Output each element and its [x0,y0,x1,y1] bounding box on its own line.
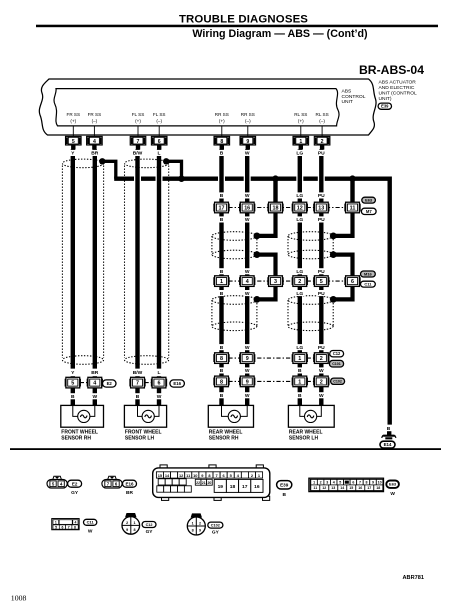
connector oval C102 (row4) [331,378,345,384]
svg-text:B: B [220,269,224,275]
connector terminal 17 [213,204,215,212]
svg-text:L: L [158,370,161,376]
drain 11 to RL shield [333,213,352,236]
pin 5 of ABS control unit [66,136,82,145]
label W below row2 [244,290,250,296]
svg-text:M16: M16 [364,271,373,276]
svg-text:1: 1 [55,521,57,525]
svg-text:19: 19 [218,484,224,490]
svg-text:5: 5 [55,525,57,529]
connector terminal 12 [292,204,294,212]
svg-text:(+): (+) [135,119,141,124]
svg-text:5: 5 [72,139,75,145]
connector row 3 dash links [228,357,293,359]
ground stub [387,431,391,435]
svg-text:9: 9 [246,379,249,385]
svg-text:8: 8 [192,529,194,533]
connector terminal 7 (front LH) [129,379,131,387]
svg-text:B: B [136,394,140,400]
svg-text:16: 16 [254,484,260,490]
junction dot RL shield bottom [330,251,337,258]
label LG below row1 [295,216,304,222]
svg-text:B: B [298,368,302,374]
wire label Y under pin [70,150,76,156]
svg-text:8: 8 [133,528,135,532]
connector terminal 2 (row2) [292,277,294,285]
label B between rows 3-4 [219,367,225,373]
shield cylinder RL pair lower [288,296,333,305]
svg-text:W: W [390,491,395,497]
front wire to sensor [157,388,161,406]
wire label B under pin [219,150,225,156]
pin 2 of ABS control unit [314,136,330,145]
svg-text:LG: LG [296,151,303,157]
ground connector oval E14 [380,441,395,448]
svg-text:18: 18 [273,206,279,212]
svg-text:FR SS: FR SS [67,112,81,117]
connector terminal 1 (row4) [292,378,294,386]
svg-text:B: B [220,151,224,157]
wire label LG under pin [295,150,304,156]
connector oval C101 (row3) [329,360,343,367]
svg-text:17: 17 [367,486,371,490]
wire PU rear LH (-) to sensor [319,386,323,406]
connector oval C12 (row3) [330,351,344,357]
pin 4 of ABS control unit [87,136,103,145]
svg-text:UNIT (CONTROL: UNIT (CONTROL [379,90,417,96]
svg-text:E63: E63 [389,482,397,487]
junction dot RR lower shield [254,296,261,303]
label W to front sensor [92,393,98,399]
svg-text:(+): (+) [298,119,304,124]
svg-text:5: 5 [339,481,341,485]
svg-text:15: 15 [349,486,353,490]
front wire to connector [135,376,139,379]
svg-text:C102: C102 [333,379,342,383]
label PU above row1 [317,192,326,198]
legend oval E63 [386,481,399,488]
svg-text:LG: LG [296,269,303,275]
svg-text:7: 7 [68,525,70,529]
svg-text:PU: PU [318,269,325,275]
pin 9 of ABS control unit [240,136,256,145]
label Y above front connector [70,369,76,375]
svg-text:M7: M7 [366,209,372,214]
svg-text:E16: E16 [125,481,134,486]
svg-text:9: 9 [246,356,249,362]
svg-text:(–): (–) [245,119,251,124]
svg-text:(+): (+) [219,119,225,124]
svg-text:SENSOR RH: SENSOR RH [61,435,91,441]
connector terminal 4 (front RH) [87,379,89,387]
svg-text:6: 6 [351,279,354,285]
svg-text:6: 6 [158,381,161,387]
svg-text:3: 3 [274,279,277,285]
wire B rear RH (+) to row4 [219,363,223,377]
svg-text:RR SS: RR SS [241,112,255,117]
connector terminal 6 (front LH) [151,379,153,387]
label B below row1 [219,216,225,222]
label LG above row2 [295,268,304,274]
shield cylinder RR pair upper [212,232,257,241]
svg-text:7: 7 [137,139,140,145]
rear wheel sensor LH [288,405,334,427]
label B/W above front connector [131,369,144,375]
wire W rear RH (-) upper [245,149,249,202]
svg-text:C101: C101 [332,362,341,366]
wire LG rear LH (+) to sensor [298,386,302,406]
svg-text:13: 13 [331,486,335,490]
svg-text:14: 14 [340,486,344,490]
svg-text:8: 8 [74,525,76,529]
pin leader wires [73,126,322,136]
label W above row1 [244,192,250,198]
wire label PU under pin [317,150,326,156]
svg-text:12: 12 [322,486,326,490]
pin 1 of ABS control unit [293,136,309,145]
legend connector face E63 [309,478,384,491]
junction dot RL shield top [330,233,337,240]
svg-text:W: W [245,269,250,275]
svg-text:B: B [220,217,224,223]
label W above row2 [244,268,250,274]
svg-text:8: 8 [220,379,223,385]
svg-text:1: 1 [313,481,315,485]
shield cylinder RL pair upper [288,232,333,241]
legend connector face C11 [52,519,79,530]
wire LG rear LH (+) lower [298,286,302,353]
junction dot RR shield bottom [254,251,261,258]
svg-text:2: 2 [298,279,301,285]
label W below row4 [244,392,250,398]
connector terminal 2 (row4) [313,378,315,386]
svg-text:GY: GY [71,490,79,496]
ground symbol [383,436,394,439]
svg-text:FR SS: FR SS [88,112,102,117]
svg-text:1: 1 [133,521,135,525]
svg-text:8: 8 [220,356,223,362]
svg-text:6: 6 [352,481,354,485]
wire label W under pin [244,150,250,156]
svg-text:LG: LG [296,291,303,297]
svg-text:E2: E2 [107,381,113,386]
svg-text:E14: E14 [384,442,392,447]
svg-text:C11: C11 [87,520,95,525]
svg-text:C12: C12 [146,523,153,527]
connector oval E16 [170,380,185,387]
svg-text:E39: E39 [381,104,389,109]
drain RR shield to connector 3 [257,255,276,277]
pin 6 of ABS control unit [151,136,167,145]
ground bus wire to E14 [114,179,390,425]
wire label B/W under pin [131,150,144,156]
svg-text:(–): (–) [92,119,98,124]
label L above front connector [156,369,162,375]
svg-text:RL SS: RL SS [316,112,329,117]
connector terminal 2 (row3) [313,354,315,362]
wire PU rear LH (-) lower [319,286,323,353]
connector terminal 18 [267,204,269,212]
label B below row4 [297,392,303,398]
wire L front LH (-) [157,149,161,368]
wire W rear RH (-) lower [245,286,249,353]
svg-text:2: 2 [199,521,201,525]
wire B rear RH (+) upper [219,149,223,202]
wire label BR under pin [90,150,99,156]
svg-text:PU: PU [318,151,325,157]
label B above row3 [219,344,225,350]
wire PU rear LH (-) middle [319,213,323,276]
label W above row3 [244,344,250,350]
svg-text:LG: LG [296,217,303,223]
wire B rear RH (+) to sensor [219,386,223,406]
wire LG rear LH (+) middle [298,213,302,276]
svg-text:B: B [220,345,224,351]
wire label L under pin [156,150,162,156]
bottom separator rule [10,448,441,450]
ABS actuator and electric unit outer box [39,79,376,135]
svg-text:TROUBLE DIAGNOSES: TROUBLE DIAGNOSES [179,13,308,25]
shield cylinder front LH pair [125,159,169,168]
wire PU rear LH (-) to row4 [319,363,323,377]
svg-text:B: B [220,393,224,399]
svg-text:W: W [245,393,250,399]
connector terminal 8 (row3) [213,354,215,362]
svg-text:PU: PU [318,291,325,297]
svg-text:GY: GY [146,529,154,535]
wire B/W front LH (+) [135,149,139,368]
svg-text:3: 3 [326,481,328,485]
label PU above row2 [317,268,326,274]
svg-text:C12: C12 [333,351,341,356]
label PU below row2 [317,290,326,296]
svg-text:B: B [387,426,391,432]
svg-text:W: W [245,151,250,157]
front wire to sensor [135,388,139,406]
svg-text:SENSOR LH: SENSOR LH [125,435,155,441]
svg-text:B: B [298,393,302,399]
svg-text:4: 4 [74,521,76,525]
label LG above row3 [295,344,304,350]
svg-text:W: W [319,368,324,374]
svg-text:B/W: B/W [133,151,143,157]
svg-text:C11: C11 [364,282,372,287]
connector terminal 6 (row2) [344,277,346,285]
svg-text:21: 21 [202,481,206,485]
svg-text:W: W [92,394,97,400]
front wire to sensor [93,388,97,406]
svg-text:W: W [245,193,250,199]
svg-text:W: W [157,394,162,400]
svg-text:ABS ACTUATOR: ABS ACTUATOR [379,80,417,86]
svg-text:2: 2 [320,481,322,485]
label PU above row3 [317,344,326,350]
svg-text:E16: E16 [173,381,181,386]
connector oval C11 (row2) [361,281,376,287]
drain from bus to connector 11 [350,179,354,203]
svg-text:8: 8 [366,481,368,485]
connector oval E63 (row1) [362,197,376,203]
connector terminal 1 (row3) [292,354,294,362]
label LG below row2 [295,290,304,296]
svg-text:17: 17 [242,484,248,490]
svg-text:1: 1 [299,139,302,145]
connector terminal 5 (row2) [313,277,315,285]
header rule [36,25,438,28]
label B below row4 [219,392,225,398]
svg-text:PU: PU [318,345,325,351]
svg-text:16: 16 [244,206,250,212]
label W below row4 [319,392,325,398]
rear wheel sensor RH [208,405,253,427]
svg-text:9: 9 [199,529,201,533]
wire Y front RH (+) [71,149,75,368]
pin 7 of ABS control unit [130,136,146,145]
connector oval E2 [103,380,117,387]
wire W rear RH (-) to row4 [245,363,249,377]
label B to front sensor [135,393,141,399]
svg-text:UNIT): UNIT) [379,96,392,102]
label B to front sensor [70,393,76,399]
connector oval E39 (top) [378,103,391,109]
svg-text:GY: GY [212,530,220,536]
junction dot FR shield drain [99,158,105,164]
svg-text:6: 6 [158,139,161,145]
junction dot bus/conn18 [272,175,279,182]
connector terminal 8 (row4) [213,378,215,386]
junction dot RR shield top [254,233,261,240]
svg-text:E39: E39 [280,482,289,487]
connector terminal 4 (row2) [239,277,241,285]
svg-text:SENSOR LH: SENSOR LH [289,435,319,441]
svg-text:16: 16 [358,486,362,490]
svg-text:1: 1 [298,356,301,362]
connector terminal 11 [344,204,346,212]
legend connector face E39 (control unit) [160,465,167,469]
svg-text:ABR781: ABR781 [403,575,424,581]
shield cylinder RR pair lower [212,296,257,305]
drain 18 to RR shield [257,213,276,236]
svg-text:E2: E2 [72,481,78,486]
svg-text:2: 2 [321,139,324,145]
junction dot bus/conn11 [349,175,356,182]
svg-text:1: 1 [192,521,194,525]
svg-text:W: W [88,528,93,534]
svg-text:BR: BR [91,151,99,157]
svg-text:W: W [245,345,250,351]
svg-text:12: 12 [297,206,303,212]
connector terminal 1 (row2) [213,277,215,285]
svg-text:E63: E63 [365,198,373,203]
shield drain wire FR [102,161,116,178]
connector terminal 3 (row2) [267,277,269,285]
wire B rear RH (+) middle [219,213,223,276]
label B above row1 [219,192,225,198]
svg-text:8: 8 [220,139,223,145]
front LH connector dash link [145,382,153,384]
junction dot bus/FL drain [178,175,185,182]
svg-text:B/W: B/W [133,370,143,376]
ground wire label B [386,425,392,431]
svg-text:2: 2 [320,356,323,362]
svg-text:LG: LG [296,193,303,199]
svg-text:PU: PU [318,193,325,199]
label W below row1 [244,216,250,222]
front wire to connector [93,376,97,379]
front wire to connector [157,376,161,379]
svg-text:5: 5 [71,381,74,387]
legend connector face E16 [108,476,117,479]
shield drain wire FL [166,161,181,178]
svg-text:9: 9 [246,139,249,145]
front wheel sensor LH [124,405,166,427]
svg-text:20: 20 [207,481,211,485]
svg-text:7: 7 [215,473,217,478]
drain 3 to lower RR shield [257,286,276,299]
svg-text:7: 7 [136,381,139,387]
svg-text:RR SS: RR SS [215,112,229,117]
svg-text:B: B [220,368,224,374]
svg-text:W: W [319,393,324,399]
front wire to sensor [71,388,75,406]
svg-text:2: 2 [320,379,323,385]
shield cylinder front RH pair [62,159,103,168]
legend connector face C102 [191,513,202,517]
wire BR front RH (-) [93,149,97,368]
svg-text:UNIT: UNIT [342,99,353,105]
connector oval M16 (row2) [361,271,376,277]
pin 8 of ABS control unit [214,136,230,145]
connector terminal 5 (front RH) [65,379,67,387]
svg-text:11: 11 [313,486,317,490]
svg-text:BR: BR [126,490,133,496]
legend oval E39 [277,481,292,489]
drain 6 to lower RL shield [333,286,352,299]
ABS control unit inner box [54,89,339,126]
svg-text:AND ELECTRIC: AND ELECTRIC [379,85,415,91]
svg-text:(+): (+) [70,119,76,124]
svg-text:22: 22 [196,481,200,485]
svg-text:6: 6 [61,525,63,529]
svg-text:Wiring Diagram — ABS — (Cont’d: Wiring Diagram — ABS — (Cont’d) [192,28,368,40]
connector terminal 13 [313,204,315,212]
junction dot FL shield drain [163,158,169,164]
svg-text:10: 10 [378,481,382,485]
svg-text:ABS: ABS [342,89,353,95]
bus crossing gaps [134,175,141,182]
connector row 4 dash links [228,380,293,382]
svg-text:B: B [282,492,286,498]
label W between rows 3-4 [244,367,250,373]
connector terminal 9 (row3) [239,354,241,362]
wire B rear RH (+) lower [219,286,223,353]
legend oval C11 [84,519,97,525]
svg-text:2: 2 [126,521,128,525]
svg-text:W: W [245,368,250,374]
connector terminal 16 [239,204,241,212]
svg-text:4: 4 [246,279,249,285]
svg-text:LG: LG [296,345,303,351]
connector row 2 dash links [228,280,293,282]
drain from bus to connector 18 [273,179,277,203]
svg-text:1: 1 [220,279,223,285]
legend connector face E2 [53,476,62,479]
svg-text:4: 4 [93,381,96,387]
wire PU rear LH (-) upper [319,149,323,202]
legend connector face C12 [125,513,136,517]
label PU below row1 [317,216,326,222]
label LG above row1 [295,192,304,198]
